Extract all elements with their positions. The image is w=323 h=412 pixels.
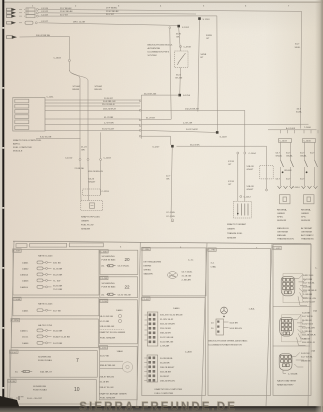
svg-text:36-3B BT: 36-3B BT [160,376,170,378]
box C-1011 sender2 [99,346,137,400]
dashed connector box mid [260,166,273,179]
svg-text:54-32 34-G: 54-32 34-G [302,324,313,326]
column divider B [202,243,208,406]
svg-text:51B-40 BR-GN: 51B-40 BR-GN [100,326,115,328]
svg-text:ANFUL: ANFUL [13,143,21,146]
wire 61-29 to riser [141,118,171,120]
svg-text:C-1400: C-1400 [304,141,312,143]
box C-1055 [13,249,99,295]
pin strip 1 [147,312,158,346]
svg-text:51-3B GR: 51-3B GR [302,320,312,322]
svg-text:C-1603: C-1603 [54,58,62,60]
svg-text:C-1030: C-1030 [100,251,108,253]
svg-text:SYSTEM: SYSTEM [148,55,157,57]
svg-text:HA/TB G-1005: HA/TB G-1005 [38,303,53,306]
connector C-1126 row1 arrow [7,8,49,11]
svg-text:SICHERUNG: SICHERUNG [33,386,46,388]
svg-text:ALTERN'INE: ALTERN'INE [148,47,161,50]
wire 232-20 [141,110,245,152]
splice S-1250 [178,94,181,97]
svg-text:50-40 BR-GN: 50-40 BR-GN [160,342,174,344]
emblem circle [221,307,228,314]
box C-1030 fuse 20 [100,250,138,275]
resistor module dashed box [175,51,189,68]
svg-text:GEBER: GEBER [81,221,89,223]
connector shield G1 [281,268,318,306]
svg-text:14A21: 14A21 [22,310,29,313]
svg-text:C-4708: C-4708 [184,47,192,49]
connector circles C-1010 row [79,159,81,161]
svg-text:CC-1005: CC-1005 [166,212,176,214]
svg-text:54-7 34-BL: 54-7 34-BL [182,272,194,274]
svg-text:54-B 5W: 54-B 5W [301,353,310,355]
svg-text:54-7: 54-7 [300,153,305,155]
box C-1439 fuse 22 [100,276,138,297]
connector shield G2 [280,310,318,346]
svg-text:C-1055: C-1055 [13,251,21,253]
svg-text:51B-3B GR-R: 51B-3B GR-R [302,335,316,337]
svg-text:36-A07 51-45 BB: 36-A07 51-45 BB [53,336,70,339]
ground drop wire [171,148,172,219]
svg-text:GN-BT: GN-BT [247,189,254,191]
svg-text:C-1012: C-1012 [244,197,252,199]
svg-text:S 1202: S 1202 [182,27,190,29]
svg-text:2- BT-OR: 2- BT-OR [183,123,193,125]
svg-text:50-32 GR-GE: 50-32 GR-GE [160,337,174,339]
svg-text:50-E BR-GN: 50-E BR-GN [103,101,116,103]
svg-text:SICHERUNG: SICHERUNG [102,256,115,258]
connector C-1122 row2 arrow [7,11,49,14]
svg-text:MANUELLE: MANUELLE [277,227,289,230]
box C-1784 resistor [208,248,271,396]
wire BT-GN to splice S-1250 [141,94,179,96]
svg-text:10: 10 [74,387,80,393]
svg-text:TRANSM.FUEL: TRANSM.FUEL [227,232,243,235]
svg-text:51B-3B GR-R: 51B-3B GR-R [303,290,317,292]
box C-1354 speed sender [142,247,206,296]
svg-text:30/3B: 30/3B [206,35,212,37]
left binding strip [0,0,2,412]
svg-text:54-7: 54-7 [310,153,315,155]
splice S-1202 [177,25,180,28]
svg-text:29 42 BK-BK: 29 42 BK-BK [106,11,119,13]
wire 56-R down to resistor [179,27,181,51]
svg-text:1+A1B: 1+A1B [185,351,192,354]
svg-text:56-G: 56-G [176,75,181,77]
svg-text:50-H + 30-4 BT: 50-H + 30-4 BT [27,398,43,400]
svg-text:50/1 BK: 50/1 BK [53,263,61,265]
svg-text:ST8-A2: ST8-A2 [95,85,103,88]
svg-text:TRANSMISS: TRANSMISS [301,238,314,241]
svg-text:ALTERNAT: ALTERNAT [301,227,313,230]
Y junction split [68,62,70,70]
svg-text:29 Y BK-BK: 29 Y BK-BK [60,8,72,10]
svg-text:20: 20 [125,257,131,262]
svg-text:BR: BR [82,150,85,152]
wire drop to C-1253b [266,146,268,189]
svg-text:KRAFTSTF.FLUSS: KRAFTSTF.FLUSS [81,216,100,219]
svg-text:ST-18: ST-18 [228,181,235,183]
svg-text:7-1400: 7-1400 [304,127,312,129]
svg-text:BELEUCHTUNG MODUL: BELEUCHTUNG MODUL [148,45,174,47]
svg-text:GN-BL: GN-BL [286,156,293,158]
svg-text:54-7 5W-BL: 54-7 5W-BL [301,357,313,359]
svg-text:31-1B GN: 31-1B GN [182,276,192,278]
svg-text:C-1439: C-1439 [100,278,108,280]
svg-text:34-7 3W-BL: 34-7 3W-BL [303,283,315,285]
svg-text:14A00: 14A00 [173,307,180,310]
svg-text:BR-GN: BR-GN [95,89,102,91]
svg-text:56/5B: 56/5B [201,54,207,56]
svg-text:C-1784: C-1784 [208,250,216,252]
svg-text:ST-18: ST-18 [228,161,235,163]
svg-text:14A26: 14A26 [22,280,29,283]
svg-text:7: 7 [76,358,79,364]
wire row4 to splice S-1202 [39,23,179,26]
connector C-4708 [180,46,182,48]
svg-text:61-29 BT: 61-29 BT [146,118,156,120]
svg-text:500 42 BR BH: 500 42 BR BH [36,35,50,37]
wire below resistor [179,68,182,94]
svg-text:BELEUCHTUNGE WHEEL ASSISTANC: BELEUCHTUNGE WHEEL ASSISTANC [209,340,248,343]
svg-text:GETRIEBE: GETRIEBE [301,232,313,234]
svg-text:KRAFTSTOFF-COMPUTER: KRAFTSTOFF-COMPUTER [155,388,183,391]
wire to splice 6-1227 [141,136,170,145]
svg-text:50A- BR-GT: 50A- BR-GT [40,371,53,374]
long wire 2-BT-OR [141,123,308,126]
grid index digits [120,247,258,250]
svg-text:5C-15 BR: 5C-15 BR [100,321,110,323]
svg-text:SPEED: SPEED [144,270,152,272]
svg-text:KRAFTSTOFF-COMPUTER-: KRAFTSTOFF-COMPUTER- [13,139,42,142]
riser to top connector [170,29,171,120]
svg-text:C/BA: C/BA [211,266,217,269]
svg-text:2- BK-BR: 2- BK-BR [303,294,313,296]
svg-text:FUEL SENDER: FUEL SENDER [100,398,116,400]
svg-text:51B-38: 51B-38 [247,186,255,188]
svg-text:1+A1L: 1+A1L [249,308,256,311]
pin block [216,319,224,335]
svg-text:268-07 36-GN: 268-07 36-GN [100,387,114,389]
top scan edge [0,0,323,1]
svg-text:GN-BL: GN-BL [276,156,283,158]
svg-text:75-13 BR: 75-13 BR [53,289,63,291]
svg-text:HA-TB 2-1256: HA-TB 2-1256 [38,324,53,327]
svg-text:232-20 BK-BT: 232-20 BK-BT [185,109,200,111]
svg-text:GEBER: GEBER [277,213,285,215]
svg-text:54-32 54-BT: 54-32 54-BT [303,302,316,304]
svg-text:54-7: 54-7 [276,179,281,181]
svg-text:B5B-B7 BR-GN: B5B-B7 BR-GN [100,365,116,367]
right outer border [308,244,311,406]
header cells under divider [16,244,27,248]
wire 54-32 splice S-1249 [216,131,219,134]
wire 54-32 from bus [141,130,217,132]
connector shield G3 [279,350,315,376]
svg-text:54-32 BL-BR: 54-32 BL-BR [302,327,315,329]
svg-text:51B-33 BL-R: 51B-33 BL-R [302,342,315,344]
svg-text:SICHERUNG: SICHERUNG [102,283,115,285]
connector C-1603 [68,59,70,61]
box C-1107 fuse 7 [10,350,98,377]
svg-text:BT-GN: BT-GN [176,78,183,80]
svg-text:GEBER: GEBER [227,229,235,231]
svg-text:14A00: 14A00 [117,350,124,353]
junction bus with connector circles [140,95,142,139]
svg-text:50/1-35V 50-32 BR-GE: 50/1-35V 50-32 BR-GE [160,315,183,317]
svg-text:SENSOR: SENSOR [277,220,287,222]
svg-text:71- SW: 71- SW [53,281,61,283]
svg-text:50-B BR: 50-B BR [230,322,239,324]
svg-text:14A34G: 14A34G [20,286,28,289]
svg-text:36-19 BR: 36-19 BR [303,279,313,281]
svg-text:2- BK-BR: 2- BK-BR [182,280,192,282]
svg-text:SICHERUNG: SICHERUNG [38,357,51,359]
svg-text:54-32 GN-GE: 54-32 GN-GE [118,294,132,296]
svg-text:CC-1005: CC-1005 [166,216,176,218]
svg-text:1+1C: 1+1C [188,260,194,262]
svg-text:C-1403: C-1403 [280,141,288,143]
svg-text:30 V BT: 30 V BT [60,15,69,17]
transm fuel sender column [227,152,256,240]
svg-text:FUEL COMPUTER: FUEL COMPUTER [13,147,32,149]
svg-text:30-7 BK: 30-7 BK [53,311,61,313]
svg-text:54/32 54/4: 54/32 54/4 [303,275,314,277]
svg-text:54-7 3W-B: 54-7 3W-B [302,316,313,318]
connector C-1127 row4 arrow [7,21,49,24]
svg-text:21B-20 BK-R: 21B-20 BK-R [103,108,116,110]
module output wires to bus [45,99,140,101]
fuel computer module box C-1011 [13,98,45,132]
box C-1356 [11,318,98,347]
box C-1135 fuse 10 [8,379,97,404]
svg-text:36-LG BK: 36-LG BK [190,144,200,146]
right shadow [315,0,323,412]
svg-text:C-1107: C-1107 [10,352,18,354]
svg-text:34-29 BR: 34-29 BR [53,343,63,345]
svg-text:14A02: 14A02 [22,268,29,271]
svg-text:14A06: 14A06 [22,342,29,345]
svg-text:21B-20 BR: 21B-20 BR [160,328,171,330]
column divider A [137,242,141,406]
svg-text:268-97 BR-GN: 268-97 BR-GN [100,377,115,379]
svg-text:KRAFTST.FLUSS GEBER: KRAFTST.FLUSS GEBER [100,331,126,334]
svg-text:21D11: 21D11 [22,337,29,339]
svg-text:C-1253: C-1253 [102,191,110,193]
svg-text:5B-10 5W-GE: 5B-10 5W-GE [100,316,114,318]
svg-text:S-1250: S-1250 [183,95,191,97]
svg-text:C-1401: C-1401 [142,299,150,301]
wire row1 to right panel [39,10,302,129]
svg-text:NEAR BATTERY: NEAR BATTERY [277,384,294,387]
svg-text:36-25 BR: 36-25 BR [53,275,63,277]
svg-text:KERRN: KERRN [144,266,152,268]
svg-text:30 V BT: 30 V BT [106,14,115,16]
bus C-1003 [268,129,317,131]
svg-text:35-55 BR: 35-55 BR [53,286,63,288]
svg-text:S-1249: S-1249 [220,137,228,139]
svg-text:14A00: 14A00 [116,309,123,312]
svg-text:ILLUMINATION RATE RESISTOR: ILLUMINATION RATE RESISTOR [209,344,243,347]
wire row3 bends down [39,16,218,131]
svg-text:C-1135: C-1135 [8,381,16,383]
svg-text:LB-: LB- [101,294,105,296]
dashed connector C-1253 [83,189,101,195]
svg-text:26B-40 BR-GN: 26B-40 BR-GN [160,381,175,383]
svg-text:GETRIEBE: GETRIEBE [277,232,289,234]
wire 36-LG with splice 6-1227 [177,145,267,147]
left outer border [10,241,15,406]
watermark [79,401,237,412]
svg-text:FUSE IN BAG: FUSE IN BAG [33,389,47,392]
svg-text:54-7: 54-7 [286,153,291,155]
svg-text:ILLUMINATION PNTS: ILLUMINATION PNTS [148,51,170,54]
svg-text:34-BL: 34-BL [295,47,302,49]
svg-text:GN-BT: GN-BT [89,182,96,184]
svg-text:31B-3B BR: 31B-3B BR [160,372,171,374]
svg-text:22: 22 [125,285,131,290]
svg-text:C-1010: C-1010 [293,187,301,189]
svg-text:34-7: 34-7 [295,44,300,46]
svg-text:2B/2B BB: 2B/2B BB [301,360,311,362]
svg-text:54-32 54/42: 54-32 54/42 [186,129,198,131]
svg-text:FUEL FLOW: FUEL FLOW [81,225,94,227]
svg-text:50-57 BK: 50-57 BK [100,356,110,358]
svg-text:50-32 51-BT: 50-32 51-BT [102,129,115,131]
wire row5 [20,36,70,59]
svg-text:SENDER: SENDER [81,229,91,231]
svg-text:2- GB-BB: 2- GB-BB [288,374,298,376]
connector row5 arrow [7,36,18,39]
svg-text:SIERRA-FREUNDE.DE: SIERRA-FREUNDE.DE [79,401,237,412]
svg-text:54-7: 54-7 [286,179,291,181]
svg-text:GN-BL: GN-BL [300,156,307,158]
svg-text:BR-BK: BR-BK [73,89,80,91]
svg-text:L5A: L5A [311,350,315,353]
svg-text:C-1010: C-1010 [65,158,73,160]
svg-text:C-1035: C-1035 [273,248,281,250]
svg-text:36-40 BR: 36-40 BR [53,331,63,333]
svg-text:REGERA-: REGERA- [277,209,287,212]
svg-text:36-2B BR: 36-2B BR [160,363,170,365]
svg-text:54-23: 54-23 [89,179,95,181]
svg-text:54-7: 54-7 [276,153,281,155]
column divider C [266,244,272,407]
svg-text:MODULE: MODULE [13,151,23,153]
svg-text:34-B BK: 34-B BK [303,286,312,288]
svg-text:22-7: 22-7 [166,176,171,178]
svg-text:51B-38: 51B-38 [247,166,255,168]
connector C-1118 row3 arrow [7,15,49,18]
svg-text:34-BL: 34-BL [296,112,303,114]
svg-text:29 F BK/BL: 29 F BK/BL [106,8,118,10]
svg-text:51-35 BR: 51-35 BR [53,269,63,271]
svg-text:54-7: 54-7 [300,179,305,181]
svg-text:GEBER: GEBER [301,213,309,215]
svg-text:32-18 BR: 32-18 BR [100,382,110,384]
svg-text:21-23: 21-23 [81,147,87,149]
svg-text:26B-2B BR-BT: 26B-2B BR-BT [160,367,175,369]
svg-text:14A01: 14A01 [22,262,29,265]
svg-text:9-32 36-GE: 9-32 36-GE [40,137,52,139]
svg-text:C-1003: C-1003 [104,158,112,160]
svg-text:C-1010: C-1010 [100,301,108,303]
wire 9-32 [36,138,81,140]
svg-text:61-29 BR: 61-29 BR [104,117,114,119]
svg-text:31B-40 GR-BR: 31B-40 GR-BR [160,324,175,326]
svg-text:DRV- 10-GE: DRV- 10-GE [73,21,86,23]
bottom-left corner blob [0,396,21,412]
svg-text:51B-20 BR-GN: 51B-20 BR-GN [88,171,103,173]
bottom scan strip [0,406,323,412]
svg-text:6-1227: 6-1227 [153,146,161,148]
svg-text:SPIEL: SPIEL [277,217,284,219]
svg-text:FUSE IN BAG: FUSE IN BAG [102,286,116,289]
box C-1010 sender [99,299,137,344]
svg-text:56-G BT-GN: 56-G BT-GN [144,93,157,95]
module text [148,45,174,58]
svg-text:50-: 50- [15,372,18,374]
svg-text:SANDER: SANDER [144,273,154,276]
svg-text:14A01C: 14A01C [20,330,28,333]
svg-text:C-1011: C-1011 [47,97,55,99]
svg-text:KETTENZACHEN: KETTENZACHEN [144,261,162,264]
wire row2 [39,13,197,14]
svg-text:HA/TB G-1003: HA/TB G-1003 [38,255,53,258]
sheet column index digits [32,6,290,8]
box C-1035 connectors [273,244,319,395]
svg-text:21-88 GE: 21-88 GE [75,168,85,170]
connector circle C-1012b [266,189,268,191]
svg-text:34-7: 34-7 [297,109,302,111]
wire 56/58 down [198,20,200,112]
svg-text:C-1356: C-1356 [12,320,20,322]
svg-text:KRAFTST.VERBAT: KRAFTST.VERBAT [227,223,247,226]
box C-1401 computer [142,297,206,396]
sensor verticals [80,161,81,201]
svg-text:2- WK-BR: 2- WK-BR [302,331,312,333]
svg-text:FUSE IN BAG: FUSE IN BAG [38,359,52,362]
svg-text:210 20 BK-R: 210 20 BK-R [102,104,115,106]
ground symbol [171,219,173,221]
svg-text:7-BB BT: 7-BB BT [302,338,311,340]
svg-text:C-1011: C-1011 [100,348,108,350]
svg-text:31-38V 36-32: 31-38V 36-32 [160,319,174,321]
svg-text:2- WT BR: 2- WT BR [104,123,114,125]
svg-text:56-R: 56-R [176,34,181,36]
svg-text:FUEL COMPUTER: FUEL COMPUTER [155,393,174,395]
svg-text:REGERA-: REGERA- [301,209,311,212]
svg-text:NACHO BATTERIE: NACHO BATTERIE [277,380,297,383]
svg-text:54-B BK: 54-B BK [302,313,311,315]
svg-text:14B01A: 14B01A [20,274,28,277]
svg-text:ST3-A2: ST3-A2 [73,85,81,88]
svg-text:54-32 BL-GN: 54-32 BL-GN [303,298,316,300]
svg-text:SENDER: SENDER [227,238,237,240]
svg-text:36B-40 BR: 36B-40 BR [160,333,171,335]
svg-text:MANUAL: MANUAL [277,234,287,237]
svg-text:SPIC: SPIC [301,217,307,219]
svg-text:TRANSMISSION: TRANSMISSION [277,238,294,241]
svg-text:FUEL SENDER: FUEL SENDER [100,338,116,340]
svg-text:C-1008: C-1008 [13,299,21,301]
svg-text:50-3B BR-BL: 50-3B BR-BL [160,358,174,360]
svg-text:50-B BR-GN: 50-B BR-GN [230,328,243,330]
svg-text:S 1203: S 1203 [203,19,211,21]
automatic transmission sender column C-1400 [300,139,318,241]
svg-text:29 42 BK-BK: 29 42 BK-BK [60,11,73,13]
svg-text:A C-1003: A C-1003 [286,127,296,130]
